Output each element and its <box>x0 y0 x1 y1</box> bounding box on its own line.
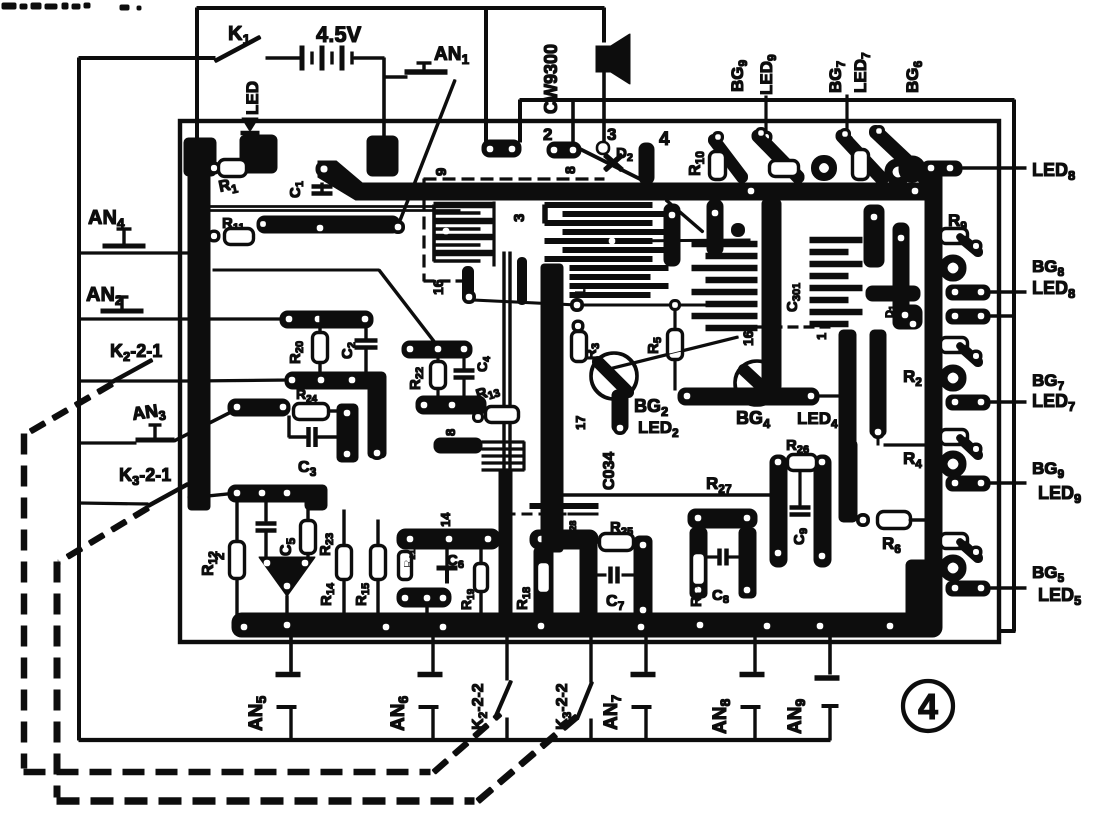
svg-text:1: 1 <box>814 333 829 340</box>
svg-text:4: 4 <box>918 686 938 727</box>
copper stub <box>518 262 527 300</box>
svg-text:2: 2 <box>543 125 552 144</box>
copper comb CW9300 left pins <box>434 202 492 208</box>
dashed link K2-2-1 to K2-2-2 <box>26 384 112 434</box>
capacitor C9 <box>790 506 810 510</box>
svg-text:8: 8 <box>443 429 458 436</box>
pad pair pin9 area <box>482 140 521 157</box>
copper column center B <box>541 264 563 552</box>
capacitor C5 <box>265 502 267 521</box>
dashed segment pin14 <box>505 513 598 515</box>
copper bus bottom <box>232 613 942 637</box>
svg-text:2: 2 <box>212 553 227 560</box>
copper column c301 mid <box>762 200 781 390</box>
wire LED7 down <box>846 95 848 141</box>
svg-text:4.5V: 4.5V <box>316 22 362 47</box>
copper bar lower small <box>434 438 482 453</box>
copper bar right link <box>866 286 920 301</box>
svg-text:CW9300: CW9300 <box>541 44 561 114</box>
svg-text:16: 16 <box>740 330 756 346</box>
copper bar center-bottom left <box>397 529 500 549</box>
svg-text:3: 3 <box>607 125 616 144</box>
figure number 4 <box>903 681 953 731</box>
copper column pin16 <box>893 223 909 329</box>
wire to pin16 right <box>609 337 738 369</box>
copper column c301 left <box>707 200 723 255</box>
copper meander center <box>545 203 652 208</box>
wire diagonal bus <box>666 200 703 232</box>
resistor R14 <box>343 510 345 548</box>
copper post R24 right <box>337 404 358 462</box>
copper column meander right <box>664 204 680 266</box>
copper bar R17 <box>688 509 757 528</box>
svg-text:9: 9 <box>433 168 450 176</box>
push button AN7 <box>645 637 647 672</box>
IC C301 dashed bottom <box>724 326 836 328</box>
capacitor C8 <box>718 549 722 565</box>
via dot <box>732 224 745 237</box>
transistor BG9 right <box>941 430 967 444</box>
copper column mid B <box>870 330 886 436</box>
copper column mid A <box>839 330 856 522</box>
resistor R15 <box>377 520 379 548</box>
capacitor C7 <box>609 567 613 583</box>
copper step bottom right <box>906 560 942 620</box>
dashed link K3-2-1 to K3-2-2 <box>59 508 148 562</box>
switch K1 <box>215 37 260 61</box>
copper bar R20-C2 top <box>280 311 373 328</box>
copper comb c301 right <box>810 237 862 243</box>
wire left common rail <box>79 57 215 60</box>
transistor BG5 right <box>941 534 967 548</box>
resistor R23 <box>307 502 309 523</box>
copper trace C1-R11 <box>257 216 400 233</box>
PCB board outline <box>180 121 999 642</box>
transistor blobs top row <box>714 140 742 177</box>
copper bar R13 <box>416 396 486 414</box>
diode D1 pads <box>896 305 922 329</box>
svg-text:LED: LED <box>243 81 262 115</box>
IC CW9300 dashed outline <box>424 178 604 180</box>
copper comb c301 left <box>692 241 757 247</box>
scan noise <box>2 3 16 9</box>
copper bar R25 <box>580 536 594 550</box>
copper column c301 right <box>864 205 884 267</box>
copper column center right <box>841 440 857 522</box>
transistor BG6 group top <box>922 161 962 176</box>
pad battery minus <box>367 136 398 176</box>
push button AN9 <box>815 676 839 681</box>
transistor BG2 <box>591 353 637 399</box>
resistor R21 <box>399 552 411 579</box>
wire AN1 to board <box>399 80 455 223</box>
copper column center A <box>503 252 505 470</box>
copper legs R25 <box>580 534 597 618</box>
resistor R18 <box>534 548 553 618</box>
resistor R1 <box>208 162 220 174</box>
transistor BG4 <box>735 361 779 405</box>
copper rail left <box>188 138 210 510</box>
transistor BG8 <box>941 229 967 243</box>
svg-text:16: 16 <box>430 279 446 295</box>
transistor BG7 right <box>941 338 967 352</box>
svg-text:3: 3 <box>511 214 528 222</box>
copper elbow pin16 <box>463 272 474 296</box>
copper bar R24 left <box>228 399 290 416</box>
wire AN2 feed <box>213 269 379 271</box>
copper bar R20-C2 bottom <box>285 372 386 389</box>
switch K3-2-2 <box>590 637 592 682</box>
wire LED9 down <box>765 96 767 136</box>
push button AN6 <box>432 637 434 672</box>
resistor R6 <box>857 514 870 527</box>
copper bar C3 bottom <box>228 485 316 502</box>
copper main bus <box>318 161 940 200</box>
copper bar center-bottom right <box>530 530 598 549</box>
push button AN8 <box>754 637 756 672</box>
svg-text:17: 17 <box>573 416 588 430</box>
svg-text:14: 14 <box>438 512 453 527</box>
svg-text:K3-2-1: K3-2-1 <box>119 465 171 488</box>
copper bar center-bottom lower <box>397 588 451 607</box>
svg-text:C034: C034 <box>601 452 618 490</box>
svg-text:K2-2-1: K2-2-1 <box>110 341 162 364</box>
wire bottom common <box>79 738 830 741</box>
copper bus right column <box>925 165 942 627</box>
wire R11 row <box>211 206 460 208</box>
resistor R17 <box>692 553 705 585</box>
copper legs R17 <box>690 528 707 598</box>
copper bar R22 top <box>402 341 472 358</box>
wire top supply loop <box>197 7 604 10</box>
switch K2-2-2 <box>506 637 508 680</box>
copper bar BG4 <box>678 388 819 405</box>
wire right outer loop <box>520 99 1014 102</box>
copper trace under R27 <box>530 504 598 509</box>
push button AN5 <box>290 637 292 671</box>
speaker <box>596 46 611 72</box>
wire R4 row <box>884 444 928 446</box>
copper bar second <box>946 309 990 324</box>
resistor R12 <box>236 502 238 544</box>
svg-text:8: 8 <box>562 166 578 174</box>
copper trace BG2 drop <box>612 390 628 432</box>
electrolytic C5 body <box>259 557 315 596</box>
svg-text:4: 4 <box>659 129 670 150</box>
pads on bus <box>748 188 754 194</box>
